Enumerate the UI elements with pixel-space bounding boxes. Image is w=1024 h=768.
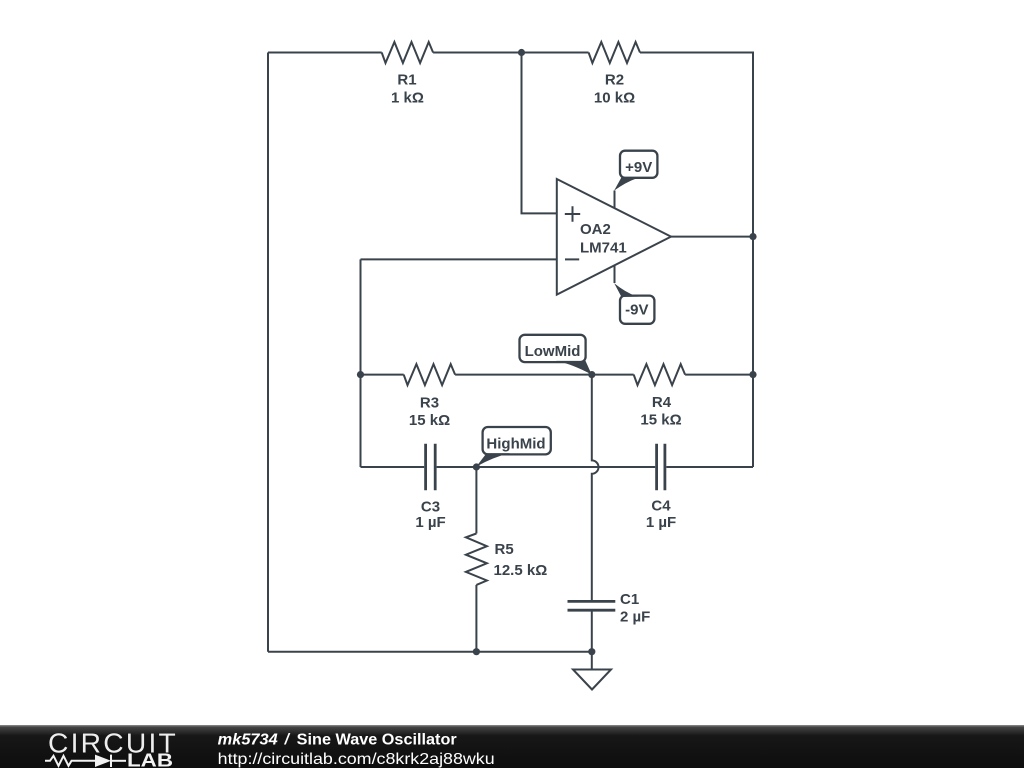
wire: mid rail right xyxy=(685,374,753,376)
footer bar xyxy=(0,725,1024,768)
svg-text:mk5734 / Sine Wave Oscillator: mk5734 / Sine Wave Oscillator xyxy=(218,732,457,749)
resistor R1 xyxy=(382,42,433,63)
svg-text:R5: R5 xyxy=(495,541,514,558)
junction node mid-right xyxy=(749,371,756,378)
svg-text:C4: C4 xyxy=(651,498,671,515)
svg-text:C1: C1 xyxy=(620,591,639,608)
resistor R3 xyxy=(404,364,455,385)
svg-text:R4: R4 xyxy=(652,394,672,411)
svg-text:http://circuitlab.com/c8krk2aj: http://circuitlab.com/c8krk2aj88wku xyxy=(218,751,495,768)
op-amp power pin bottom xyxy=(614,265,616,283)
svg-text:HighMid: HighMid xyxy=(486,436,545,453)
flag box LowMid xyxy=(520,335,586,362)
svg-text:1 µF: 1 µF xyxy=(415,514,445,531)
junction node mid-left xyxy=(357,371,364,378)
flag box +9V xyxy=(620,151,657,178)
flag pointer LowMid xyxy=(556,361,592,375)
svg-text:R2: R2 xyxy=(605,72,624,89)
junction node R5 bottom xyxy=(473,648,480,655)
wire: cap rail middle xyxy=(437,466,656,468)
svg-text:1 µF: 1 µF xyxy=(646,514,676,531)
wire: cap rail left xyxy=(361,466,425,468)
junction node top xyxy=(518,49,525,56)
wire: mid rail left xyxy=(361,374,404,376)
svg-text:LAB: LAB xyxy=(127,750,173,768)
svg-text:10 kΩ: 10 kΩ xyxy=(594,90,635,107)
op-amp minus input symbol xyxy=(565,258,579,260)
junction node ground xyxy=(588,648,595,655)
wire: top right + right vertical xyxy=(640,53,753,468)
wire: top middle segment xyxy=(433,52,588,54)
wire: R5 top lead xyxy=(475,467,477,534)
wire: R5 bottom lead xyxy=(475,585,477,652)
svg-text:15 kΩ: 15 kΩ xyxy=(640,412,681,429)
wire: op-amp output xyxy=(671,236,753,238)
wire: non-inverting input xyxy=(522,53,557,214)
svg-text:C3: C3 xyxy=(421,499,440,516)
resistor R4 xyxy=(634,364,685,385)
wire: LowMid vertical below C1 xyxy=(591,611,593,652)
wire: bottom rail xyxy=(268,651,592,653)
capacitor C4 xyxy=(657,444,665,491)
wire: left outer vertical xyxy=(267,53,269,652)
svg-text:2 µF: 2 µF xyxy=(620,609,650,626)
junction node LowMid xyxy=(588,371,595,378)
junction node HighMid xyxy=(473,463,480,470)
capacitor C1 xyxy=(568,601,616,610)
svg-text:-9V: -9V xyxy=(625,302,648,319)
wire: mid rail center xyxy=(455,374,634,376)
flag box HighMid xyxy=(483,427,551,454)
resistor R2 xyxy=(589,42,640,63)
svg-text:12.5 kΩ: 12.5 kΩ xyxy=(494,562,548,579)
wire: top left segment xyxy=(268,52,382,54)
wire: cap rail right xyxy=(666,466,753,468)
flag pointer +9V xyxy=(614,177,637,190)
svg-text:1 kΩ: 1 kΩ xyxy=(391,90,424,107)
svg-text:R1: R1 xyxy=(397,72,416,89)
svg-text:R3: R3 xyxy=(420,395,439,412)
op-amp plus input symbol xyxy=(565,206,580,221)
op-amp power pin top xyxy=(614,191,616,209)
ground xyxy=(573,652,611,690)
capacitor C3 xyxy=(426,444,436,491)
flag pointer HighMid xyxy=(476,453,510,466)
svg-text:OA2: OA2 xyxy=(580,221,611,238)
flag pointer -9V xyxy=(614,283,638,297)
logo diode symbol xyxy=(45,755,126,767)
op-amp OA2 triangle xyxy=(557,179,671,295)
wire: inverting input xyxy=(361,258,557,260)
svg-text:LM741: LM741 xyxy=(580,240,627,257)
svg-text:LowMid: LowMid xyxy=(525,343,581,360)
wire: inner left vertical xyxy=(360,259,362,467)
junction node output xyxy=(749,233,756,240)
resistor R5 xyxy=(466,534,487,585)
svg-text:+9V: +9V xyxy=(625,159,652,176)
wire: LowMid vertical with hop xyxy=(592,375,599,601)
flag box -9V xyxy=(620,296,654,324)
svg-text:15 kΩ: 15 kΩ xyxy=(409,412,450,429)
